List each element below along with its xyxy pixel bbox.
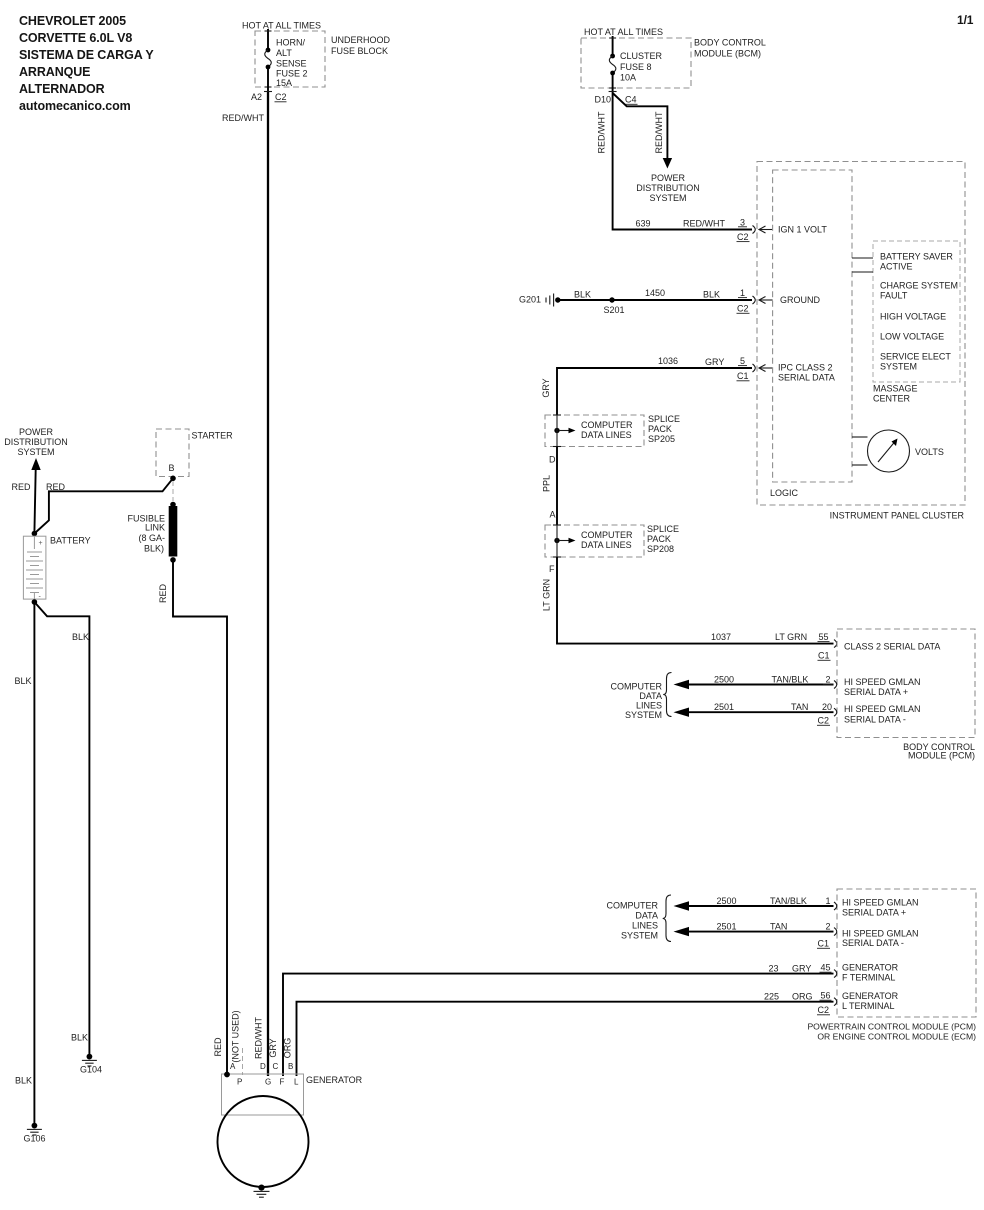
pin 55 / connector C1 of BCM <box>818 632 837 661</box>
pin 20 / connector C2 of BCM <box>817 702 837 726</box>
svg-text:DATA LINES: DATA LINES <box>581 430 632 440</box>
wire logic to message center (lower) <box>852 271 873 273</box>
svg-text:RED/WHT: RED/WHT <box>222 113 264 123</box>
node POWER DISTRIBUTION SYSTEM (left) <box>4 427 68 457</box>
svg-text:HI SPEED GMLAN: HI SPEED GMLAN <box>842 898 919 908</box>
svg-text:FUSE 8: FUSE 8 <box>620 62 652 72</box>
svg-text:BLK: BLK <box>14 676 31 686</box>
svg-text:C2: C2 <box>737 304 749 314</box>
svg-text:BLK): BLK) <box>144 544 164 554</box>
svg-text:CENTER: CENTER <box>873 394 911 404</box>
splice junction in SP205 <box>553 415 633 447</box>
svg-text:ORG: ORG <box>792 992 813 1002</box>
svg-text:(NOT USED): (NOT USED) <box>231 1010 241 1062</box>
svg-text:45: 45 <box>820 963 830 973</box>
svg-text:LT GRN: LT GRN <box>542 579 552 611</box>
svg-text:BLK: BLK <box>574 290 591 300</box>
svg-text:INSTRUMENT PANEL CLUSTER: INSTRUMENT PANEL CLUSTER <box>830 511 965 521</box>
svg-text:C2: C2 <box>275 92 287 102</box>
svg-text:10A: 10A <box>620 73 636 83</box>
wire 1036 GRY serial data to IPC <box>557 356 752 415</box>
svg-text:HOT AT ALL TIMES: HOT AT ALL TIMES <box>584 27 663 37</box>
svg-text:LT GRN: LT GRN <box>775 632 807 642</box>
underhood fuse block dashed box <box>255 31 391 87</box>
svg-text:G201: G201 <box>519 295 541 305</box>
node COMPUTER DATA LINES SYSTEM (PCM side) <box>607 895 672 942</box>
body control module fuse block dashed box <box>581 38 766 89</box>
svg-text:SPLICE: SPLICE <box>647 524 679 534</box>
svg-text:2501: 2501 <box>714 702 734 712</box>
svg-text:LOW VOLTAGE: LOW VOLTAGE <box>880 332 944 342</box>
svg-text:OR ENGINE CONTROL MODULE (ECM): OR ENGINE CONTROL MODULE (ECM) <box>817 1032 976 1042</box>
svg-text:PACK: PACK <box>647 534 671 544</box>
svg-text:15A: 15A <box>276 78 292 88</box>
svg-text:D: D <box>549 455 556 465</box>
svg-text:B: B <box>288 1062 293 1071</box>
message center dashed box <box>873 241 960 404</box>
svg-text:1450: 1450 <box>645 288 665 298</box>
svg-text:HI SPEED GMLAN: HI SPEED GMLAN <box>844 677 921 687</box>
svg-text:2: 2 <box>825 922 830 932</box>
svg-text:C1: C1 <box>737 371 749 381</box>
svg-text:PACK: PACK <box>648 424 672 434</box>
svg-text:ALT: ALT <box>276 48 292 58</box>
wire 639 RED/WHT to IPC IGN 1 VOLT <box>613 93 752 230</box>
svg-text:C1: C1 <box>818 939 830 949</box>
svg-text:55: 55 <box>818 632 828 642</box>
svg-text:SENSE: SENSE <box>276 59 307 69</box>
volts gauge M1 <box>852 430 944 472</box>
svg-text:FUSE BLOCK: FUSE BLOCK <box>331 46 388 56</box>
svg-text:G104: G104 <box>80 1065 102 1075</box>
svg-text:SP205: SP205 <box>648 434 675 444</box>
pin 5 / connector C1 of IPC <box>737 356 773 381</box>
svg-text:COMPUTER: COMPUTER <box>581 530 633 540</box>
svg-text:C2: C2 <box>818 716 830 726</box>
svg-text:FUSE 2: FUSE 2 <box>276 69 308 79</box>
pin label HI SPEED GMLAN SERIAL DATA + (BCM) <box>844 677 921 697</box>
body control module dashed box <box>837 629 975 761</box>
svg-text:RED: RED <box>158 584 168 604</box>
svg-text:5: 5 <box>740 356 745 366</box>
pin D10 / connector C4 of BCM <box>594 92 637 105</box>
svg-text:GROUND: GROUND <box>780 295 820 305</box>
ground G201 <box>519 294 561 307</box>
svg-text:GENERATOR: GENERATOR <box>842 991 899 1001</box>
svg-text:BODY CONTROL: BODY CONTROL <box>694 38 766 48</box>
wire (dashed) starter B to fusible link <box>172 481 174 501</box>
svg-text:G106: G106 <box>24 1134 46 1144</box>
pin label HI SPEED GMLAN SERIAL DATA - (PCM) <box>842 929 919 949</box>
svg-text:CHEVROLET 2005: CHEVROLET 2005 <box>19 14 126 28</box>
svg-text:MODULE (PCM): MODULE (PCM) <box>908 751 975 761</box>
wire 2500 TAN/BLK GMLAN+ (BCM) <box>674 675 834 690</box>
svg-text:D10: D10 <box>594 95 611 105</box>
svg-text:F TERMINAL: F TERMINAL <box>842 973 895 983</box>
svg-text:LINES: LINES <box>632 921 658 931</box>
svg-text:DATA LINES: DATA LINES <box>581 540 632 550</box>
svg-text:ALTERNADOR: ALTERNADOR <box>19 82 105 96</box>
svg-text:L: L <box>294 1078 299 1087</box>
wire 1037 LT GRN class 2 serial data to BCM <box>557 557 834 644</box>
svg-text:VOLTS: VOLTS <box>915 447 944 457</box>
battery B1 <box>23 531 90 605</box>
svg-text:L TERMINAL: L TERMINAL <box>842 1001 895 1011</box>
svg-text:(8 GA-: (8 GA- <box>138 533 165 543</box>
svg-text:SERIAL DATA -: SERIAL DATA - <box>842 938 904 948</box>
svg-text:COMPUTER: COMPUTER <box>581 420 633 430</box>
svg-text:RED: RED <box>11 482 31 492</box>
wire logic to message center (upper) <box>852 257 873 259</box>
svg-text:RED/WHT: RED/WHT <box>254 1017 264 1059</box>
svg-text:F: F <box>549 564 555 574</box>
svg-text:2: 2 <box>825 675 830 685</box>
svg-text:P: P <box>237 1078 242 1087</box>
svg-text:GRY: GRY <box>541 378 551 397</box>
svg-text:BLK: BLK <box>703 290 720 300</box>
svg-text:HI SPEED GMLAN: HI SPEED GMLAN <box>842 929 919 939</box>
svg-text:3: 3 <box>740 218 745 228</box>
pin 2 of BCM <box>823 675 837 689</box>
svg-text:POWER: POWER <box>19 427 54 437</box>
svg-text:SERVICE ELECT: SERVICE ELECT <box>880 352 951 362</box>
svg-text:SYSTEM: SYSTEM <box>621 931 658 941</box>
wire (NOT USED) dashed stub at generator P <box>242 1048 244 1075</box>
svg-text:RED/WHT: RED/WHT <box>597 111 607 153</box>
svg-text:MASSAGE: MASSAGE <box>873 384 918 394</box>
svg-text:CORVETTE 6.0L V8: CORVETTE 6.0L V8 <box>19 31 132 45</box>
splice pack SP208 dashed box <box>545 524 679 557</box>
svg-text:IGN 1 VOLT: IGN 1 VOLT <box>778 225 827 235</box>
svg-text:ORG: ORG <box>283 1038 293 1059</box>
wire BLK battery negative to G104 <box>34 602 89 1055</box>
svg-text:UNDERHOOD: UNDERHOOD <box>331 35 391 45</box>
svg-text:PPL: PPL <box>542 475 552 492</box>
pin 56 / connector C2 of PCM <box>817 991 837 1016</box>
svg-text:1037: 1037 <box>711 632 731 642</box>
generator case ground <box>254 1185 270 1198</box>
wire RED battery positive to starter B <box>34 478 173 533</box>
svg-text:1/1: 1/1 <box>957 13 974 27</box>
ground G106 <box>24 1123 46 1144</box>
generator connector box <box>222 1074 363 1115</box>
svg-text:POWERTRAIN CONTROL MODULE (PCM: POWERTRAIN CONTROL MODULE (PCM) <box>807 1022 976 1032</box>
pin label HI SPEED GMLAN SERIAL DATA - (BCM) <box>844 704 921 724</box>
svg-text:HI SPEED GMLAN: HI SPEED GMLAN <box>844 704 921 714</box>
IPC logic dashed box <box>770 170 852 498</box>
wire 2500 TAN/BLK GMLAN+ (PCM) <box>674 896 834 911</box>
svg-text:DISTRIBUTION: DISTRIBUTION <box>4 437 68 447</box>
starter dashed box <box>156 429 233 477</box>
fuse CLUSTER FUSE 8 10A <box>609 36 662 93</box>
svg-text:BATTERY SAVER: BATTERY SAVER <box>880 252 953 262</box>
svg-text:CHARGE SYSTEM: CHARGE SYSTEM <box>880 281 958 291</box>
svg-text:GRY: GRY <box>792 964 811 974</box>
svg-text:C1: C1 <box>818 651 830 661</box>
svg-text:20: 20 <box>822 702 832 712</box>
svg-text:BLK: BLK <box>71 1033 88 1043</box>
svg-text:TAN/BLK: TAN/BLK <box>772 675 809 685</box>
svg-text:SYSTEM: SYSTEM <box>625 710 662 720</box>
svg-text:SYSTEM: SYSTEM <box>17 447 54 457</box>
powertrain control module dashed box <box>807 889 976 1042</box>
svg-text:COMPUTER: COMPUTER <box>611 682 663 692</box>
svg-text:1036: 1036 <box>658 356 678 366</box>
svg-text:IPC CLASS 2: IPC CLASS 2 <box>778 363 833 373</box>
pin label HI SPEED GMLAN SERIAL DATA + (PCM) <box>842 898 919 918</box>
svg-text:SERIAL DATA -: SERIAL DATA - <box>844 714 906 724</box>
pin label GENERATOR F TERMINAL <box>842 963 899 983</box>
svg-text:GRY: GRY <box>705 357 724 367</box>
svg-text:2501: 2501 <box>716 922 736 932</box>
svg-text:B: B <box>168 463 174 473</box>
pin label IPC CLASS 2 SERIAL DATA <box>778 363 835 383</box>
svg-text:GENERATOR: GENERATOR <box>306 1075 363 1085</box>
ground G104 <box>80 1054 102 1075</box>
splice pack SP205 dashed box <box>545 414 680 447</box>
svg-text:CLUSTER: CLUSTER <box>620 51 663 61</box>
svg-text:F: F <box>280 1078 285 1087</box>
pin 1 of PCM <box>825 896 836 910</box>
svg-text:MODULE (BCM): MODULE (BCM) <box>694 49 761 59</box>
pin A of generator <box>224 1062 236 1077</box>
svg-text:TAN: TAN <box>770 922 787 932</box>
svg-text:LOGIC: LOGIC <box>770 488 799 498</box>
svg-text:DATA: DATA <box>635 911 658 921</box>
title block text <box>19 14 154 113</box>
svg-text:C: C <box>273 1062 279 1071</box>
svg-text:DISTRIBUTION: DISTRIBUTION <box>636 183 700 193</box>
svg-text:2500: 2500 <box>716 896 736 906</box>
svg-text:C4: C4 <box>625 95 637 105</box>
wire RED/WHT branch to power distribution system <box>613 93 673 169</box>
wire 225 ORG generator L terminal <box>297 992 834 1077</box>
instrument panel cluster dashed box <box>757 162 965 521</box>
svg-text:FAULT: FAULT <box>880 291 908 301</box>
svg-text:HORN/: HORN/ <box>276 38 305 48</box>
svg-text:1: 1 <box>825 896 830 906</box>
svg-text:POWER: POWER <box>651 173 686 183</box>
svg-text:STARTER: STARTER <box>192 431 234 441</box>
svg-text:GRY: GRY <box>268 1038 278 1057</box>
fuse F2 HORN/ALT SENSE 15A <box>265 29 308 92</box>
node COMPUTER DATA LINES SYSTEM (BCM side) <box>611 673 672 721</box>
node POWER DISTRIBUTION SYSTEM (top) <box>636 173 700 203</box>
svg-text:BATTERY: BATTERY <box>50 536 91 546</box>
splice S201 <box>603 297 624 315</box>
svg-text:RED/WHT: RED/WHT <box>654 111 664 153</box>
svg-text:+: + <box>39 540 43 547</box>
wire 23 GRY generator F terminal <box>283 964 834 1077</box>
svg-text:639: 639 <box>635 219 650 229</box>
wire RED battery positive to power distribution (arrow up) <box>31 458 40 533</box>
svg-text:TAN: TAN <box>791 702 808 712</box>
wire RED/WHT from fuse 2 down to generator G <box>267 92 269 1076</box>
svg-text:RED: RED <box>213 1037 223 1057</box>
svg-text:LINK: LINK <box>145 523 165 533</box>
svg-text:RED/WHT: RED/WHT <box>683 219 725 229</box>
svg-text:SP208: SP208 <box>647 544 674 554</box>
svg-text:COMPUTER: COMPUTER <box>607 901 659 911</box>
svg-text:2500: 2500 <box>714 675 734 685</box>
wire 2501 TAN GMLAN- (PCM) <box>674 922 834 937</box>
svg-text:SERIAL DATA +: SERIAL DATA + <box>842 908 906 918</box>
pin 2 / connector C1 of PCM <box>817 922 837 949</box>
svg-text:A2: A2 <box>251 92 262 102</box>
svg-text:CLASS 2 SERIAL DATA: CLASS 2 SERIAL DATA <box>844 642 940 652</box>
svg-text:DATA: DATA <box>639 691 662 701</box>
fusible link (8 GA BLK) <box>127 502 177 563</box>
svg-text:C2: C2 <box>737 232 749 242</box>
svg-text:S201: S201 <box>603 305 624 315</box>
wire BLK 1450 ground wire to IPC <box>558 288 752 300</box>
svg-text:56: 56 <box>820 991 830 1001</box>
wire 2501 TAN GMLAN- (BCM) <box>674 702 834 717</box>
pin B of starter <box>168 463 175 481</box>
pin 1 / connector C2 of IPC ground <box>737 288 773 314</box>
svg-text:23: 23 <box>768 964 778 974</box>
svg-text:D: D <box>260 1062 266 1071</box>
svg-text:SPLICE: SPLICE <box>648 414 680 424</box>
svg-text:SYSTEM: SYSTEM <box>880 362 917 372</box>
svg-text:SYSTEM: SYSTEM <box>649 193 686 203</box>
svg-text:TAN/BLK: TAN/BLK <box>770 896 807 906</box>
svg-text:LINES: LINES <box>636 701 662 711</box>
svg-text:C2: C2 <box>818 1005 830 1015</box>
svg-text:SERIAL DATA +: SERIAL DATA + <box>844 687 908 697</box>
svg-text:225: 225 <box>764 992 779 1002</box>
svg-text:BLK: BLK <box>15 1076 32 1086</box>
pin A2 / connector C2 of underhood fuse block <box>251 92 287 103</box>
pin 45 of PCM <box>820 963 837 978</box>
svg-text:HOT AT ALL TIMES: HOT AT ALL TIMES <box>242 21 321 31</box>
generator body circle <box>218 1096 309 1187</box>
svg-text:SERIAL DATA: SERIAL DATA <box>778 373 835 383</box>
pin 3 / connector C2 of IPC <box>737 218 773 242</box>
svg-text:1: 1 <box>740 288 745 298</box>
svg-text:G: G <box>265 1078 271 1087</box>
splice junction in SP208 <box>553 525 633 557</box>
svg-text:GENERATOR: GENERATOR <box>842 963 899 973</box>
svg-text:A: A <box>549 510 555 520</box>
svg-text:ARRANQUE: ARRANQUE <box>19 65 90 79</box>
wire PPL between SP205 and SP208 <box>556 447 558 526</box>
svg-text:BLK: BLK <box>72 632 89 642</box>
svg-text:ACTIVE: ACTIVE <box>880 262 913 272</box>
wire RED fusible link to generator A <box>173 560 227 1076</box>
svg-text:HIGH VOLTAGE: HIGH VOLTAGE <box>880 312 946 322</box>
svg-text:automecanico.com: automecanico.com <box>19 99 131 113</box>
wire BLK battery negative to G106 <box>33 602 35 1124</box>
svg-text:A: A <box>230 1062 236 1071</box>
svg-text:SISTEMA DE CARGA Y: SISTEMA DE CARGA Y <box>19 48 154 62</box>
pin label GENERATOR L TERMINAL <box>842 991 899 1011</box>
